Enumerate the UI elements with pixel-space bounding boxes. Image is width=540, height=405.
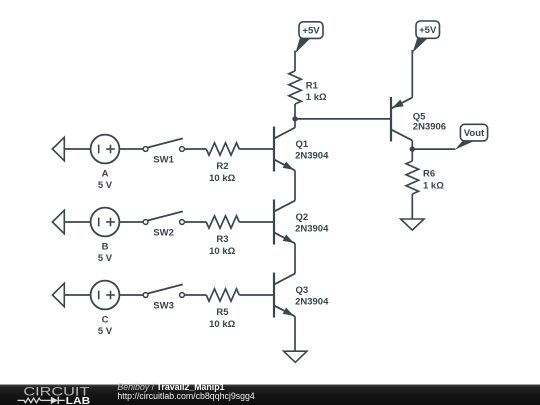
power flag +5V (left) xyxy=(295,22,323,53)
svg-text:5 V: 5 V xyxy=(98,326,113,337)
wire node N1 to Q5 base xyxy=(295,118,391,120)
svg-text:2N3904: 2N3904 xyxy=(295,151,329,162)
resistor R3 xyxy=(206,216,239,228)
svg-text:LAB: LAB xyxy=(66,396,91,405)
svg-text:1 kΩ: 1 kΩ xyxy=(423,180,444,191)
svg-text:Vout: Vout xyxy=(464,128,485,139)
resistor R6 xyxy=(406,161,418,194)
svg-text:C: C xyxy=(102,314,109,325)
wire R6 to ground xyxy=(411,194,413,219)
svg-text:A: A xyxy=(102,168,109,179)
svg-text:Q1: Q1 xyxy=(296,139,309,150)
ground under R6 xyxy=(401,219,424,230)
svg-text:2N3904: 2N3904 xyxy=(295,297,329,308)
wire flag A to source VA xyxy=(64,148,90,150)
wire SW1 to resistor R2 xyxy=(184,148,206,150)
wire R2 to base of Q1 xyxy=(239,148,274,150)
resistor R1 xyxy=(289,71,301,104)
transistor Q5 2N3906 PNP xyxy=(391,97,412,149)
switch SW1 xyxy=(143,138,184,151)
CircuitLab logo mini wire xyxy=(41,399,51,401)
transistor Q3 2N3904 NPN xyxy=(274,273,295,318)
resistor R2 xyxy=(206,143,239,155)
wire Q2 emitter to Q3 collector xyxy=(294,243,296,273)
wire +5V flag to Q5 emitter xyxy=(411,50,413,98)
transistor Q2 2N3904 NPN xyxy=(274,200,295,245)
junction node N2 at Q5 collector xyxy=(410,146,415,151)
svg-text:10 kΩ: 10 kΩ xyxy=(209,319,235,330)
resistor R5 xyxy=(206,289,239,301)
svg-text:2N3904: 2N3904 xyxy=(295,224,329,235)
wire SW3 to resistor R5 xyxy=(184,294,206,296)
input flag terminal C xyxy=(52,283,64,306)
wire Q1 collector to node N1 xyxy=(294,119,296,128)
svg-text:B: B xyxy=(102,241,109,252)
wire SW2 to resistor R3 xyxy=(184,221,206,223)
wire node N2 to R6 xyxy=(411,149,413,161)
wire R5 to base of Q3 xyxy=(239,294,274,296)
junction node N1 xyxy=(292,116,297,121)
svg-text:R3: R3 xyxy=(216,234,228,245)
svg-text:SW1: SW1 xyxy=(153,155,174,166)
svg-text:5 V: 5 V xyxy=(98,253,113,264)
svg-text:R6: R6 xyxy=(423,169,435,180)
wire source A to SW1 xyxy=(119,148,143,150)
svg-text:R2: R2 xyxy=(216,161,228,172)
wire R3 to base of Q2 xyxy=(239,221,274,223)
wire flag C to source VC xyxy=(64,294,90,296)
voltage source B 5V xyxy=(91,208,120,237)
svg-text:Q2: Q2 xyxy=(296,212,309,223)
wire source C to SW3 xyxy=(119,294,143,296)
power flag +5V (right) xyxy=(413,21,440,53)
wire flag B to source VB xyxy=(64,221,90,223)
svg-text:http://circuitlab.com/cb8qqhcj: http://circuitlab.com/cb8qqhcj9sgg4 xyxy=(117,391,255,401)
input flag terminal B xyxy=(52,210,64,233)
wire source B to SW2 xyxy=(119,221,143,223)
svg-text:2N3906: 2N3906 xyxy=(413,121,446,132)
svg-text:+5V: +5V xyxy=(419,25,437,36)
svg-text:SW2: SW2 xyxy=(153,228,174,239)
svg-text:R1: R1 xyxy=(306,80,319,91)
svg-text:10 kΩ: 10 kΩ xyxy=(209,173,235,184)
svg-text:1 kΩ: 1 kΩ xyxy=(306,92,327,103)
wire R1 to node N1 xyxy=(294,104,296,119)
CircuitLab logo mini resistor xyxy=(18,398,41,403)
wire Q1 emitter to Q2 collector xyxy=(294,170,296,200)
wire Q3 emitter to ground xyxy=(294,316,296,351)
net flag Vout xyxy=(455,124,488,149)
wire +5V flag to R1 xyxy=(294,51,296,72)
svg-text:Q3: Q3 xyxy=(296,285,309,296)
voltage source C 5V xyxy=(91,281,120,310)
svg-text:R5: R5 xyxy=(216,307,229,318)
svg-text:10 kΩ: 10 kΩ xyxy=(209,246,235,257)
ground under Q3 xyxy=(284,351,307,362)
wire node N2 to Vout flag xyxy=(412,148,455,150)
svg-text:5 V: 5 V xyxy=(98,180,113,191)
transistor Q1 2N3904 NPN xyxy=(274,127,295,172)
footer bar background xyxy=(0,385,540,405)
switch SW3 xyxy=(143,284,184,297)
CircuitLab logo mini diode xyxy=(51,397,65,404)
svg-text:SW3: SW3 xyxy=(153,301,174,312)
switch SW2 xyxy=(143,211,184,224)
svg-text:+5V: +5V xyxy=(302,26,320,37)
voltage source A 5V xyxy=(91,135,120,164)
input flag terminal A xyxy=(52,137,64,160)
